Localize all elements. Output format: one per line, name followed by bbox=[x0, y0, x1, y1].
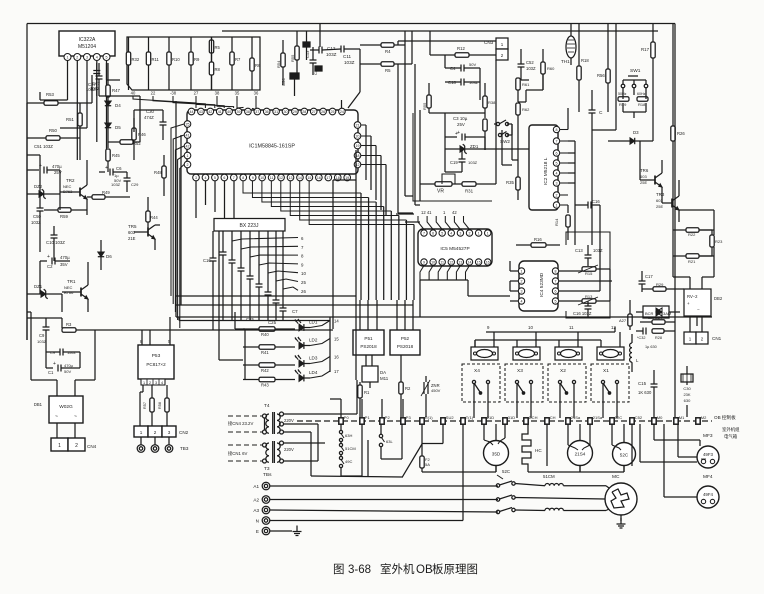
capacitor C3 10u 25V bbox=[445, 116, 485, 141]
horizontal bus lines center bbox=[95, 180, 712, 330]
resistor R10 bbox=[167, 37, 181, 90]
ground at E bbox=[293, 526, 302, 536]
bridge rectifier DB1 W02G bbox=[34, 380, 83, 438]
svg-text:R28: R28 bbox=[655, 336, 662, 340]
logic IC5 M54527P bbox=[418, 229, 492, 266]
svg-text:41: 41 bbox=[186, 134, 190, 138]
svg-text:41: 41 bbox=[218, 110, 222, 114]
wires from IC1 bottom left pins down bbox=[196, 181, 234, 219]
wire CN3 pin1 feed bbox=[398, 41, 496, 45]
svg-text:电气箱: 电气箱 bbox=[724, 433, 738, 440]
wires right transistor block bbox=[673, 170, 714, 289]
svg-text:R55: R55 bbox=[422, 102, 427, 110]
svg-text:DZ2: DZ2 bbox=[34, 184, 43, 189]
svg-text:SW1: SW1 bbox=[630, 68, 641, 74]
svg-text:103Z: 103Z bbox=[593, 248, 603, 253]
terminal C52 bbox=[630, 415, 643, 424]
capacitor C6 1u 50V bbox=[99, 165, 127, 183]
resistor R47 bbox=[106, 63, 121, 101]
IC2 pin circles 8-1 bbox=[553, 126, 559, 208]
resistor R18b 60Hz bbox=[634, 88, 648, 107]
svg-text:X2: X2 bbox=[560, 368, 566, 374]
svg-text:−: − bbox=[697, 307, 700, 312]
svg-text:15: 15 bbox=[477, 261, 481, 265]
svg-text:C16: C16 bbox=[592, 199, 600, 204]
svg-text:1: 1 bbox=[487, 232, 489, 236]
compressor motor MC bbox=[605, 474, 637, 521]
LED LD4 bbox=[295, 369, 339, 381]
svg-text:A27: A27 bbox=[619, 318, 627, 323]
resistor R26 bbox=[671, 24, 686, 171]
svg-text:室外机组: 室外机组 bbox=[722, 426, 740, 433]
svg-text:C17: C17 bbox=[645, 274, 653, 279]
svg-text:HC: HC bbox=[535, 448, 542, 453]
resistor R14 bbox=[554, 215, 570, 240]
terminal P1 bbox=[360, 415, 371, 424]
svg-text:R55: R55 bbox=[290, 54, 295, 62]
VR step wire bbox=[442, 174, 455, 184]
horizontal feed to P0-P3 columns bbox=[330, 399, 403, 417]
svg-text:30: 30 bbox=[284, 110, 288, 114]
resistor R31 bbox=[462, 182, 496, 194]
svg-text:42: 42 bbox=[452, 210, 457, 215]
transformer T4 bbox=[263, 403, 294, 434]
svg-text:R40: R40 bbox=[261, 332, 269, 337]
capacitor C30 474Z bbox=[144, 109, 167, 140]
svg-text:36: 36 bbox=[265, 110, 269, 114]
optocoupler P53 PC817x2 bbox=[138, 339, 174, 379]
resistor R22 bbox=[673, 228, 712, 237]
svg-text:R56: R56 bbox=[597, 73, 605, 78]
IC5 bottom wire fan bbox=[420, 266, 470, 281]
svg-text:R11: R11 bbox=[152, 57, 160, 62]
svg-text:27: 27 bbox=[312, 110, 316, 114]
IC1 right pin wires bbox=[361, 125, 386, 215]
relay contact X1 bbox=[591, 364, 629, 402]
svg-text:P52: P52 bbox=[401, 336, 410, 341]
svg-text:R42: R42 bbox=[261, 368, 269, 373]
svg-text:20: 20 bbox=[356, 135, 360, 139]
svg-text:7: 7 bbox=[556, 140, 558, 144]
terminal A3 bbox=[253, 506, 269, 514]
svg-text:1: 1 bbox=[478, 232, 480, 236]
svg-text:6: 6 bbox=[555, 290, 557, 294]
svg-text:6: 6 bbox=[223, 176, 225, 180]
svg-text:DB1: DB1 bbox=[34, 402, 43, 407]
switch SW1 bbox=[621, 68, 648, 88]
svg-text:11: 11 bbox=[569, 325, 574, 330]
svg-text:R14: R14 bbox=[554, 218, 559, 226]
wires from BX223J down bbox=[219, 231, 283, 360]
capacitor C48 470u 25V bbox=[27, 163, 62, 175]
svg-text:R5: R5 bbox=[215, 45, 221, 50]
svg-text:16: 16 bbox=[334, 355, 339, 360]
capacitor C18 103Z bbox=[445, 79, 480, 86]
capacitor C54 bbox=[281, 73, 299, 96]
svg-text:15: 15 bbox=[307, 176, 311, 180]
svg-text:接CN4 23.2V: 接CN4 23.2V bbox=[228, 420, 253, 427]
svg-text:CH: CH bbox=[550, 415, 556, 420]
svg-text:C11: C11 bbox=[343, 54, 352, 59]
svg-text:4: 4 bbox=[556, 172, 558, 176]
svg-text:C54: C54 bbox=[281, 78, 286, 86]
svg-text:12: 12 bbox=[611, 325, 616, 330]
svg-text:5: 5 bbox=[214, 176, 216, 180]
IC1 right pin column bbox=[354, 122, 361, 168]
svg-text:PS2018: PS2018 bbox=[360, 344, 377, 349]
svg-text:25E: 25E bbox=[656, 204, 663, 209]
svg-text:2: 2 bbox=[75, 443, 78, 449]
BX wire arcs to pins 6 7 8 9 10 25 26 bbox=[232, 236, 306, 294]
svg-text:14: 14 bbox=[298, 176, 302, 180]
svg-text:10: 10 bbox=[431, 261, 435, 265]
svg-text:10: 10 bbox=[260, 176, 264, 180]
resistor R50 bbox=[27, 128, 80, 140]
svg-text:D4: D4 bbox=[115, 103, 121, 108]
contactor mid wire bbox=[515, 498, 605, 500]
valve coil 2154 bbox=[568, 424, 593, 472]
svg-text:CN2: CN2 bbox=[179, 430, 189, 435]
relay coil RL1 bbox=[597, 325, 624, 360]
IC1 left pin fan wires bbox=[171, 124, 184, 328]
svg-text:R47: R47 bbox=[112, 88, 120, 93]
top area vertical drops bbox=[398, 31, 496, 213]
svg-text:13: 13 bbox=[458, 261, 462, 265]
svg-text:*C32: *C32 bbox=[637, 336, 645, 340]
svg-text:P3: P3 bbox=[406, 415, 412, 420]
svg-text:C15: C15 bbox=[638, 381, 647, 386]
svg-text:15: 15 bbox=[334, 337, 339, 342]
svg-text:R13: R13 bbox=[585, 294, 593, 299]
connector CN3 bbox=[484, 38, 508, 60]
svg-text:TR3: TR3 bbox=[656, 192, 665, 197]
wire bundle down from IC1 bottom to right bbox=[243, 181, 414, 225]
svg-text:R26: R26 bbox=[677, 131, 685, 136]
svg-text:DZ1: DZ1 bbox=[34, 284, 43, 289]
svg-text:C19: C19 bbox=[450, 160, 458, 165]
resistor R55 bbox=[290, 31, 299, 74]
resistor R29 bbox=[642, 282, 684, 291]
resistor R1 bbox=[358, 382, 370, 417]
svg-text:A3: A3 bbox=[253, 508, 259, 513]
terminal CH bbox=[545, 415, 556, 424]
svg-text:3: 3 bbox=[521, 290, 523, 294]
svg-text:R29: R29 bbox=[656, 282, 664, 287]
resistor R19 50Hz bbox=[618, 88, 629, 107]
svg-text:470µ: 470µ bbox=[64, 363, 74, 368]
resistor R56 bbox=[597, 24, 610, 113]
terminal 21Sa bbox=[566, 415, 581, 424]
svg-text:1µ 630: 1µ 630 bbox=[645, 345, 657, 349]
terminal A2 bbox=[253, 496, 269, 504]
svg-text:R16: R16 bbox=[534, 237, 542, 242]
transistor TR6 603 25E bbox=[640, 160, 662, 194]
svg-text:2: 2 bbox=[76, 56, 78, 60]
svg-text:36: 36 bbox=[254, 91, 259, 96]
terminal TB3 bbox=[137, 437, 189, 452]
capacitor C30 23K 630 box bbox=[681, 366, 693, 417]
capacitor C17 bbox=[639, 271, 654, 292]
svg-text:室外机: 室外机 bbox=[380, 562, 415, 576]
fan motor MF3 bbox=[678, 424, 719, 468]
svg-text:5: 5 bbox=[555, 300, 557, 304]
IC322A pins 1-5 bbox=[64, 54, 110, 61]
resistor R55b bbox=[422, 83, 431, 113]
M0 M2 wires down bbox=[640, 424, 700, 462]
terminal N bbox=[256, 517, 270, 525]
resistor R21 bbox=[673, 254, 712, 264]
bus from IC5 down bbox=[420, 280, 510, 317]
fuse F2 5A bbox=[402, 424, 443, 478]
svg-text:2: 2 bbox=[469, 232, 471, 236]
svg-text:N: N bbox=[256, 519, 259, 524]
connector CN2 bbox=[134, 426, 189, 437]
svg-text:LD2: LD2 bbox=[309, 338, 318, 343]
svg-text:MF4: MF4 bbox=[703, 474, 713, 480]
svg-text:C13: C13 bbox=[305, 50, 310, 58]
svg-text:3: 3 bbox=[155, 381, 157, 385]
terminal wires A1 A2 A3 N E bbox=[270, 486, 498, 531]
svg-text:103Z: 103Z bbox=[526, 66, 536, 71]
terminal 31D bbox=[503, 415, 515, 424]
svg-text:R38: R38 bbox=[488, 100, 496, 105]
svg-text:2: 2 bbox=[521, 280, 523, 284]
wire mid-left riser bbox=[134, 110, 163, 132]
svg-text:R21: R21 bbox=[688, 259, 696, 264]
IC2 pin wires bbox=[560, 108, 575, 213]
svg-text:IC322A: IC322A bbox=[79, 37, 96, 43]
LED LD3 bbox=[295, 355, 339, 367]
IC1 bottom pin row bbox=[193, 174, 351, 181]
svg-text:TB3: TB3 bbox=[180, 446, 189, 451]
svg-text:X3: X3 bbox=[517, 368, 523, 374]
resistor R3b bbox=[360, 62, 412, 73]
resistor R18a bbox=[577, 24, 590, 113]
capacitor C29 103Z bbox=[111, 172, 139, 192]
P2 column switch 63L bbox=[379, 424, 402, 459]
capacitor C13 bbox=[303, 31, 310, 60]
capacitor C19b 103Z bbox=[450, 149, 478, 172]
svg-text:MF3: MF3 bbox=[703, 433, 713, 439]
svg-text:3: 3 bbox=[168, 430, 171, 435]
svg-text:43: 43 bbox=[199, 110, 203, 114]
P53 bottom pin squares 1-4 bbox=[141, 379, 165, 385]
svg-text:470µ: 470µ bbox=[60, 255, 70, 260]
thick mid bus second line bbox=[179, 317, 330, 321]
capacitor C52 103Z bbox=[518, 49, 536, 80]
svg-text:8: 8 bbox=[556, 128, 558, 132]
svg-text:R(1): R(1) bbox=[425, 415, 433, 420]
svg-text:RV−2: RV−2 bbox=[687, 294, 698, 299]
svg-text:35: 35 bbox=[235, 91, 240, 96]
resistor R59 bbox=[44, 208, 87, 219]
resistor R35 bbox=[506, 150, 520, 200]
svg-text:21Sa: 21Sa bbox=[593, 415, 603, 420]
svg-text:17: 17 bbox=[334, 369, 339, 374]
svg-text:630: 630 bbox=[684, 398, 691, 403]
relay contact X4 bbox=[462, 364, 500, 402]
svg-text:R61: R61 bbox=[522, 82, 530, 87]
op-amp IC2 M5218L bbox=[529, 125, 558, 210]
svg-text:R8: R8 bbox=[215, 67, 221, 72]
terminal M0 bbox=[652, 415, 663, 424]
svg-text:R62: R62 bbox=[522, 107, 530, 112]
resistor R17 bbox=[641, 24, 655, 142]
LED left bus bbox=[235, 329, 245, 380]
resistor R60 bbox=[541, 49, 555, 90]
svg-text:X1: X1 bbox=[603, 368, 609, 374]
svg-text:C16 103Z: C16 103Z bbox=[573, 311, 592, 316]
svg-text:22: 22 bbox=[151, 91, 156, 96]
resistor R11 bbox=[146, 37, 159, 90]
svg-text:1: 1 bbox=[67, 56, 69, 60]
svg-text:R17: R17 bbox=[641, 47, 650, 52]
optocoupler P52 PS2018 bbox=[390, 330, 420, 355]
svg-text:R54: R54 bbox=[276, 60, 281, 68]
resistor R43 bbox=[243, 377, 295, 387]
resistor R38b bbox=[483, 119, 487, 150]
svg-text:D5: D5 bbox=[115, 125, 121, 130]
svg-text:26: 26 bbox=[321, 110, 325, 114]
svg-text:+: + bbox=[687, 301, 690, 306]
svg-text:C25: C25 bbox=[246, 317, 254, 322]
capacitor C2 470u 35V bbox=[40, 254, 70, 269]
terminal P3 bbox=[401, 415, 412, 424]
svg-text:38: 38 bbox=[246, 110, 250, 114]
svg-text:7: 7 bbox=[423, 232, 425, 236]
resistor R62 bbox=[516, 103, 530, 126]
right-mid vertical buses bbox=[575, 24, 616, 292]
resistor R46 bbox=[132, 118, 147, 160]
svg-text:10: 10 bbox=[528, 325, 533, 330]
resistor R49 bus wire bbox=[87, 96, 140, 199]
wires around C3 block bbox=[429, 113, 485, 172]
svg-text:4: 4 bbox=[161, 381, 163, 385]
capacitor C16b bbox=[203, 248, 217, 270]
frame left border bbox=[26, 24, 28, 341]
svg-text:51CM: 51CM bbox=[543, 474, 555, 479]
svg-text:50V: 50V bbox=[64, 369, 71, 374]
box around VR block bbox=[413, 113, 492, 201]
terminal A1 bbox=[253, 482, 269, 490]
LED LD1 bbox=[295, 319, 339, 331]
svg-text:C13: C13 bbox=[575, 248, 583, 253]
resistor R45 bbox=[106, 149, 121, 172]
svg-text:C6: C6 bbox=[116, 166, 122, 171]
svg-text:25E: 25E bbox=[640, 180, 647, 185]
svg-text:5A: 5A bbox=[425, 462, 430, 467]
svg-text:R57: R57 bbox=[143, 402, 147, 409]
IC4 right wires to R15 R13 bbox=[559, 271, 612, 301]
resistor R6 bbox=[250, 37, 261, 90]
svg-text:~: ~ bbox=[74, 414, 77, 420]
diode D4 bbox=[105, 101, 121, 123]
svg-text:3: 3 bbox=[459, 232, 461, 236]
diode D6 bbox=[98, 240, 112, 270]
capacitor C25 and C7 top bbox=[246, 317, 254, 322]
transistor array DA M11 bbox=[362, 355, 389, 388]
svg-text:P2: P2 bbox=[385, 415, 391, 420]
capacitor C10 103Z bbox=[46, 226, 65, 252]
svg-text:M2: M2 bbox=[701, 415, 707, 420]
svg-text:1: 1 bbox=[140, 430, 143, 435]
svg-text:39: 39 bbox=[237, 110, 241, 114]
svg-text:52C: 52C bbox=[620, 453, 629, 458]
svg-text:4: 4 bbox=[450, 232, 452, 236]
svg-text:R18: R18 bbox=[581, 58, 589, 63]
svg-text:C7: C7 bbox=[292, 309, 298, 314]
resistor R54 bbox=[276, 40, 285, 85]
svg-text:R58: R58 bbox=[158, 402, 162, 409]
svg-text:474Z: 474Z bbox=[144, 115, 154, 120]
resistor R9 bbox=[189, 37, 200, 90]
svg-text:D6: D6 bbox=[106, 254, 112, 259]
svg-text:7: 7 bbox=[555, 280, 557, 284]
svg-text:3-68: 3-68 bbox=[348, 564, 371, 576]
capacitor C14 bbox=[575, 199, 600, 209]
trimmer VR bbox=[420, 182, 462, 195]
capacitor C51 103Z bbox=[27, 144, 53, 155]
svg-text:19: 19 bbox=[356, 144, 360, 148]
svg-text:C29: C29 bbox=[131, 182, 139, 187]
svg-text:R9: R9 bbox=[194, 57, 200, 62]
wires above P51 P52 bbox=[360, 300, 413, 330]
svg-text:CN4: CN4 bbox=[87, 444, 97, 449]
svg-text:470µ: 470µ bbox=[52, 164, 62, 169]
svg-text:DCH: DCH bbox=[529, 415, 538, 420]
svg-text:R3: R3 bbox=[66, 322, 72, 327]
switch SW2 bbox=[494, 120, 512, 144]
svg-text:R50: R50 bbox=[49, 128, 57, 133]
svg-text:603: 603 bbox=[640, 174, 647, 179]
capacitor C12 103Z bbox=[310, 46, 337, 57]
bottom-left wires bbox=[27, 318, 80, 368]
P53 top wires bbox=[142, 317, 170, 345]
svg-text:PS2018: PS2018 bbox=[397, 344, 414, 349]
svg-text:T(1): T(1) bbox=[466, 415, 474, 420]
wires IC2 region bbox=[512, 74, 543, 150]
svg-text:2: 2 bbox=[154, 430, 157, 435]
capacitor C13b 103Z bbox=[575, 245, 603, 266]
connector CN1 bbox=[684, 316, 722, 344]
svg-text:TR5: TR5 bbox=[128, 224, 137, 229]
svg-text:ZD1: ZD1 bbox=[470, 144, 479, 149]
resistor R40 bbox=[243, 327, 295, 337]
relay contact X2 bbox=[548, 364, 586, 402]
triac BCR 3AM bbox=[636, 306, 680, 318]
capacitor C1 470u 50V bbox=[46, 361, 80, 375]
diode D5 bbox=[105, 123, 121, 148]
svg-text:103Z: 103Z bbox=[326, 52, 337, 57]
svg-text:D3: D3 bbox=[633, 130, 639, 135]
wire top-right of IC1 bbox=[320, 24, 360, 109]
bank pin numbers 40 22 38 27 38 35 36 bbox=[131, 91, 259, 96]
svg-text:TBs: TBs bbox=[263, 472, 272, 478]
capacitor C11 103Z bbox=[322, 46, 360, 66]
svg-text:OB: OB bbox=[416, 564, 433, 576]
svg-text:1: 1 bbox=[521, 270, 523, 274]
svg-text:4: 4 bbox=[204, 176, 206, 180]
wire loop left bottom bbox=[27, 312, 95, 380]
transistor TR2 NEC B763 bbox=[60, 160, 87, 215]
svg-text:44: 44 bbox=[190, 110, 194, 114]
resistor R51 bbox=[66, 103, 82, 160]
capacitor C15 1K630 bbox=[638, 370, 658, 417]
resistor R3 bbox=[62, 322, 95, 332]
svg-text:M1: M1 bbox=[679, 415, 685, 420]
LED LD2 bbox=[295, 337, 339, 349]
svg-text:5: 5 bbox=[556, 162, 558, 166]
